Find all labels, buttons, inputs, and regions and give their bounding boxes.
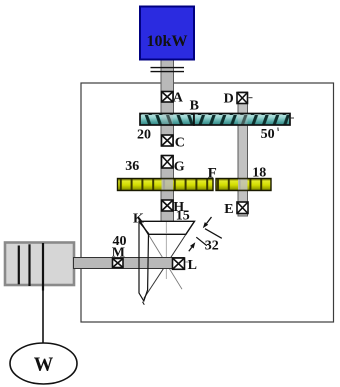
- svg-text:50: 50: [261, 127, 275, 142]
- svg-text:G: G: [174, 159, 185, 174]
- svg-text:20: 20: [137, 127, 151, 142]
- svg-text:A: A: [173, 91, 184, 106]
- svg-text:F: F: [208, 166, 217, 182]
- svg-text:W: W: [34, 355, 54, 376]
- svg-text:E: E: [224, 202, 233, 217]
- svg-text:15: 15: [176, 209, 190, 224]
- svg-text:C: C: [175, 135, 185, 150]
- svg-text:36: 36: [125, 159, 139, 174]
- svg-text:L: L: [188, 258, 197, 273]
- svg-text:18: 18: [252, 165, 266, 180]
- svg-text:D: D: [224, 92, 234, 107]
- svg-text:32: 32: [205, 239, 219, 254]
- svg-text:K: K: [133, 211, 144, 226]
- svg-text:B: B: [190, 99, 199, 114]
- svg-text:40: 40: [113, 234, 127, 249]
- svg-text:10kW: 10kW: [147, 33, 188, 50]
